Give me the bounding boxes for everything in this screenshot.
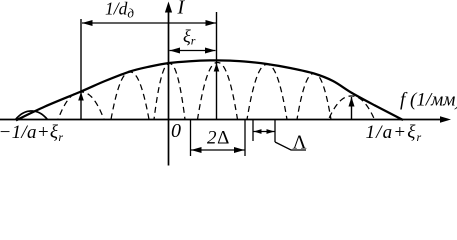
envelope curve xyxy=(16,60,403,120)
lobe 7 xyxy=(297,74,314,120)
svg-text:I: I xyxy=(177,0,186,19)
lobe 5 (central, 2-delta) xyxy=(198,63,218,120)
dimension xi_r line xyxy=(170,50,216,52)
lobe 2 xyxy=(58,92,81,120)
lobe 6 xyxy=(247,65,267,120)
dimension Lambda arrows xyxy=(254,131,275,133)
lobe 1 (solid small) xyxy=(16,111,48,120)
vertical arrow / extension line at lobe 5 xyxy=(216,12,218,120)
lobe 3 xyxy=(111,72,130,120)
Lambda leader line xyxy=(275,142,306,150)
vertical arrow / extension line at lobe 2 xyxy=(80,19,82,120)
vertical arrow at lobe 8 xyxy=(351,97,353,120)
svg-text:1/a+ξr: 1/a+ξr xyxy=(366,122,423,144)
svg-text:f (1/мм): f (1/мм) xyxy=(400,90,457,111)
svg-text:Λ: Λ xyxy=(293,133,307,154)
dimension 1/d_d line xyxy=(82,22,216,24)
dimension 2-delta arrow line xyxy=(191,149,245,151)
I axis (vertical) xyxy=(168,10,170,166)
lobe 4 (at axis) xyxy=(154,64,170,120)
dimension Lambda ticks xyxy=(252,120,254,142)
svg-text:ξr: ξr xyxy=(183,26,196,48)
svg-text:1/dд: 1/dд xyxy=(105,0,134,21)
svg-text:2Δ: 2Δ xyxy=(207,128,230,149)
lobe 8 xyxy=(329,96,352,120)
svg-text:−1/a+ξr: −1/a+ξr xyxy=(0,122,63,144)
dimension 2-delta ticks xyxy=(190,120,192,157)
f axis (horizontal) xyxy=(0,119,448,121)
svg-text:0: 0 xyxy=(171,120,181,142)
